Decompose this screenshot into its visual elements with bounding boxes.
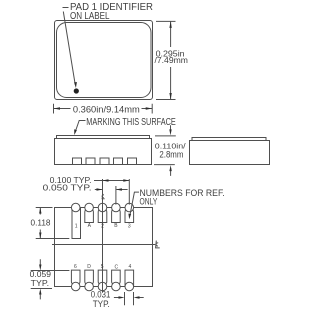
side view pad P2: [86, 158, 95, 165]
land pad 3: [125, 210, 134, 223]
dimension 0.118 line: [39, 208, 41, 239]
svg-text:0.050 TYP.: 0.050 TYP.: [43, 184, 92, 193]
leader to pad 1 dot: [63, 8, 76, 85]
land pad 1: [72, 208, 81, 239]
svg-text:3: 3: [128, 224, 131, 230]
dimension 0.059 extension lines: [31, 271, 70, 289]
svg-text:MARKING THIS SURFACE: MARKING THIS SURFACE: [86, 117, 176, 128]
centerline symbol right: [156, 241, 160, 248]
land circle B: [112, 203, 121, 212]
land pad C: [112, 270, 121, 284]
land circle 5: [98, 282, 107, 291]
land pad B: [112, 210, 121, 223]
dimension 0.050 arrows: [95, 189, 128, 191]
dimension 0.031 extension lines: [125, 292, 134, 305]
svg-text:5: 5: [101, 264, 104, 270]
horizontal centerline: [52, 244, 155, 246]
dimension 0.031 arrows: [114, 297, 144, 299]
land circle A: [85, 203, 94, 212]
land pad D: [85, 270, 94, 284]
land circle 2: [98, 203, 107, 212]
dimension 0.059 arrows: [39, 259, 41, 299]
land circle C: [112, 282, 121, 291]
svg-text:C: C: [114, 264, 118, 270]
package top view outer outline: [55, 21, 153, 100]
svg-text:1: 1: [75, 224, 78, 230]
svg-text:TYP.: TYP.: [31, 278, 49, 288]
side view pad P3: [100, 158, 109, 165]
land pad 2: [98, 210, 107, 223]
svg-text:TYP.: TYP.: [93, 299, 110, 309]
svg-text:/7.49mm: /7.49mm: [155, 56, 189, 65]
land circle 6: [71, 282, 80, 291]
dimension 0.110in extension lines: [154, 136, 176, 165]
side view lid: [57, 136, 150, 139]
vertical centerline: [102, 179, 104, 293]
land circle 1: [71, 203, 80, 212]
centerline symbol top: [102, 194, 105, 199]
svg-text:6: 6: [74, 264, 77, 270]
svg-text:0.118: 0.118: [31, 218, 51, 228]
land circle 4: [125, 282, 134, 291]
svg-text:0.360in/9.14mm: 0.360in/9.14mm: [73, 104, 140, 115]
dimension 0.110in arrows: [170, 125, 172, 176]
dimension 0.295in line: [170, 21, 172, 99]
dimension 0.295in extension lines: [156, 21, 176, 99]
land pad A: [85, 210, 94, 223]
svg-text:2.8mm: 2.8mm: [159, 149, 183, 159]
land pad 6: [71, 270, 80, 284]
side view pad P1: [73, 158, 82, 165]
numbers-for-ref leader: [130, 192, 139, 216]
side view body: [55, 139, 152, 165]
land pattern outline: [55, 208, 153, 287]
leader marking this surface: [75, 121, 86, 133]
svg-text:D: D: [87, 264, 91, 270]
land circle 3: [125, 203, 134, 212]
dimension 0.360in line: [54, 108, 153, 110]
svg-text:2: 2: [101, 224, 104, 230]
end view body: [190, 141, 270, 165]
svg-text:ON LABEL: ON LABEL: [70, 11, 110, 22]
pad 1 identifier dot: [74, 88, 79, 93]
land pad 4: [125, 270, 134, 286]
dimension 0.360in extension ticks: [54, 104, 153, 114]
side view pad P4: [114, 158, 123, 165]
side view pad P5: [128, 158, 137, 165]
end view lid: [192, 138, 266, 141]
dimension 0.100 line: [94, 180, 129, 182]
svg-text:ONLY: ONLY: [140, 196, 158, 207]
svg-text:4: 4: [129, 264, 132, 270]
package top view inner rounded outline: [57, 23, 152, 98]
dimension 0.118 extension lines: [36, 208, 70, 239]
land pad 5: [98, 270, 107, 284]
land circle D: [85, 282, 94, 291]
dimension 0.100 extension ticks: [116, 179, 129, 205]
